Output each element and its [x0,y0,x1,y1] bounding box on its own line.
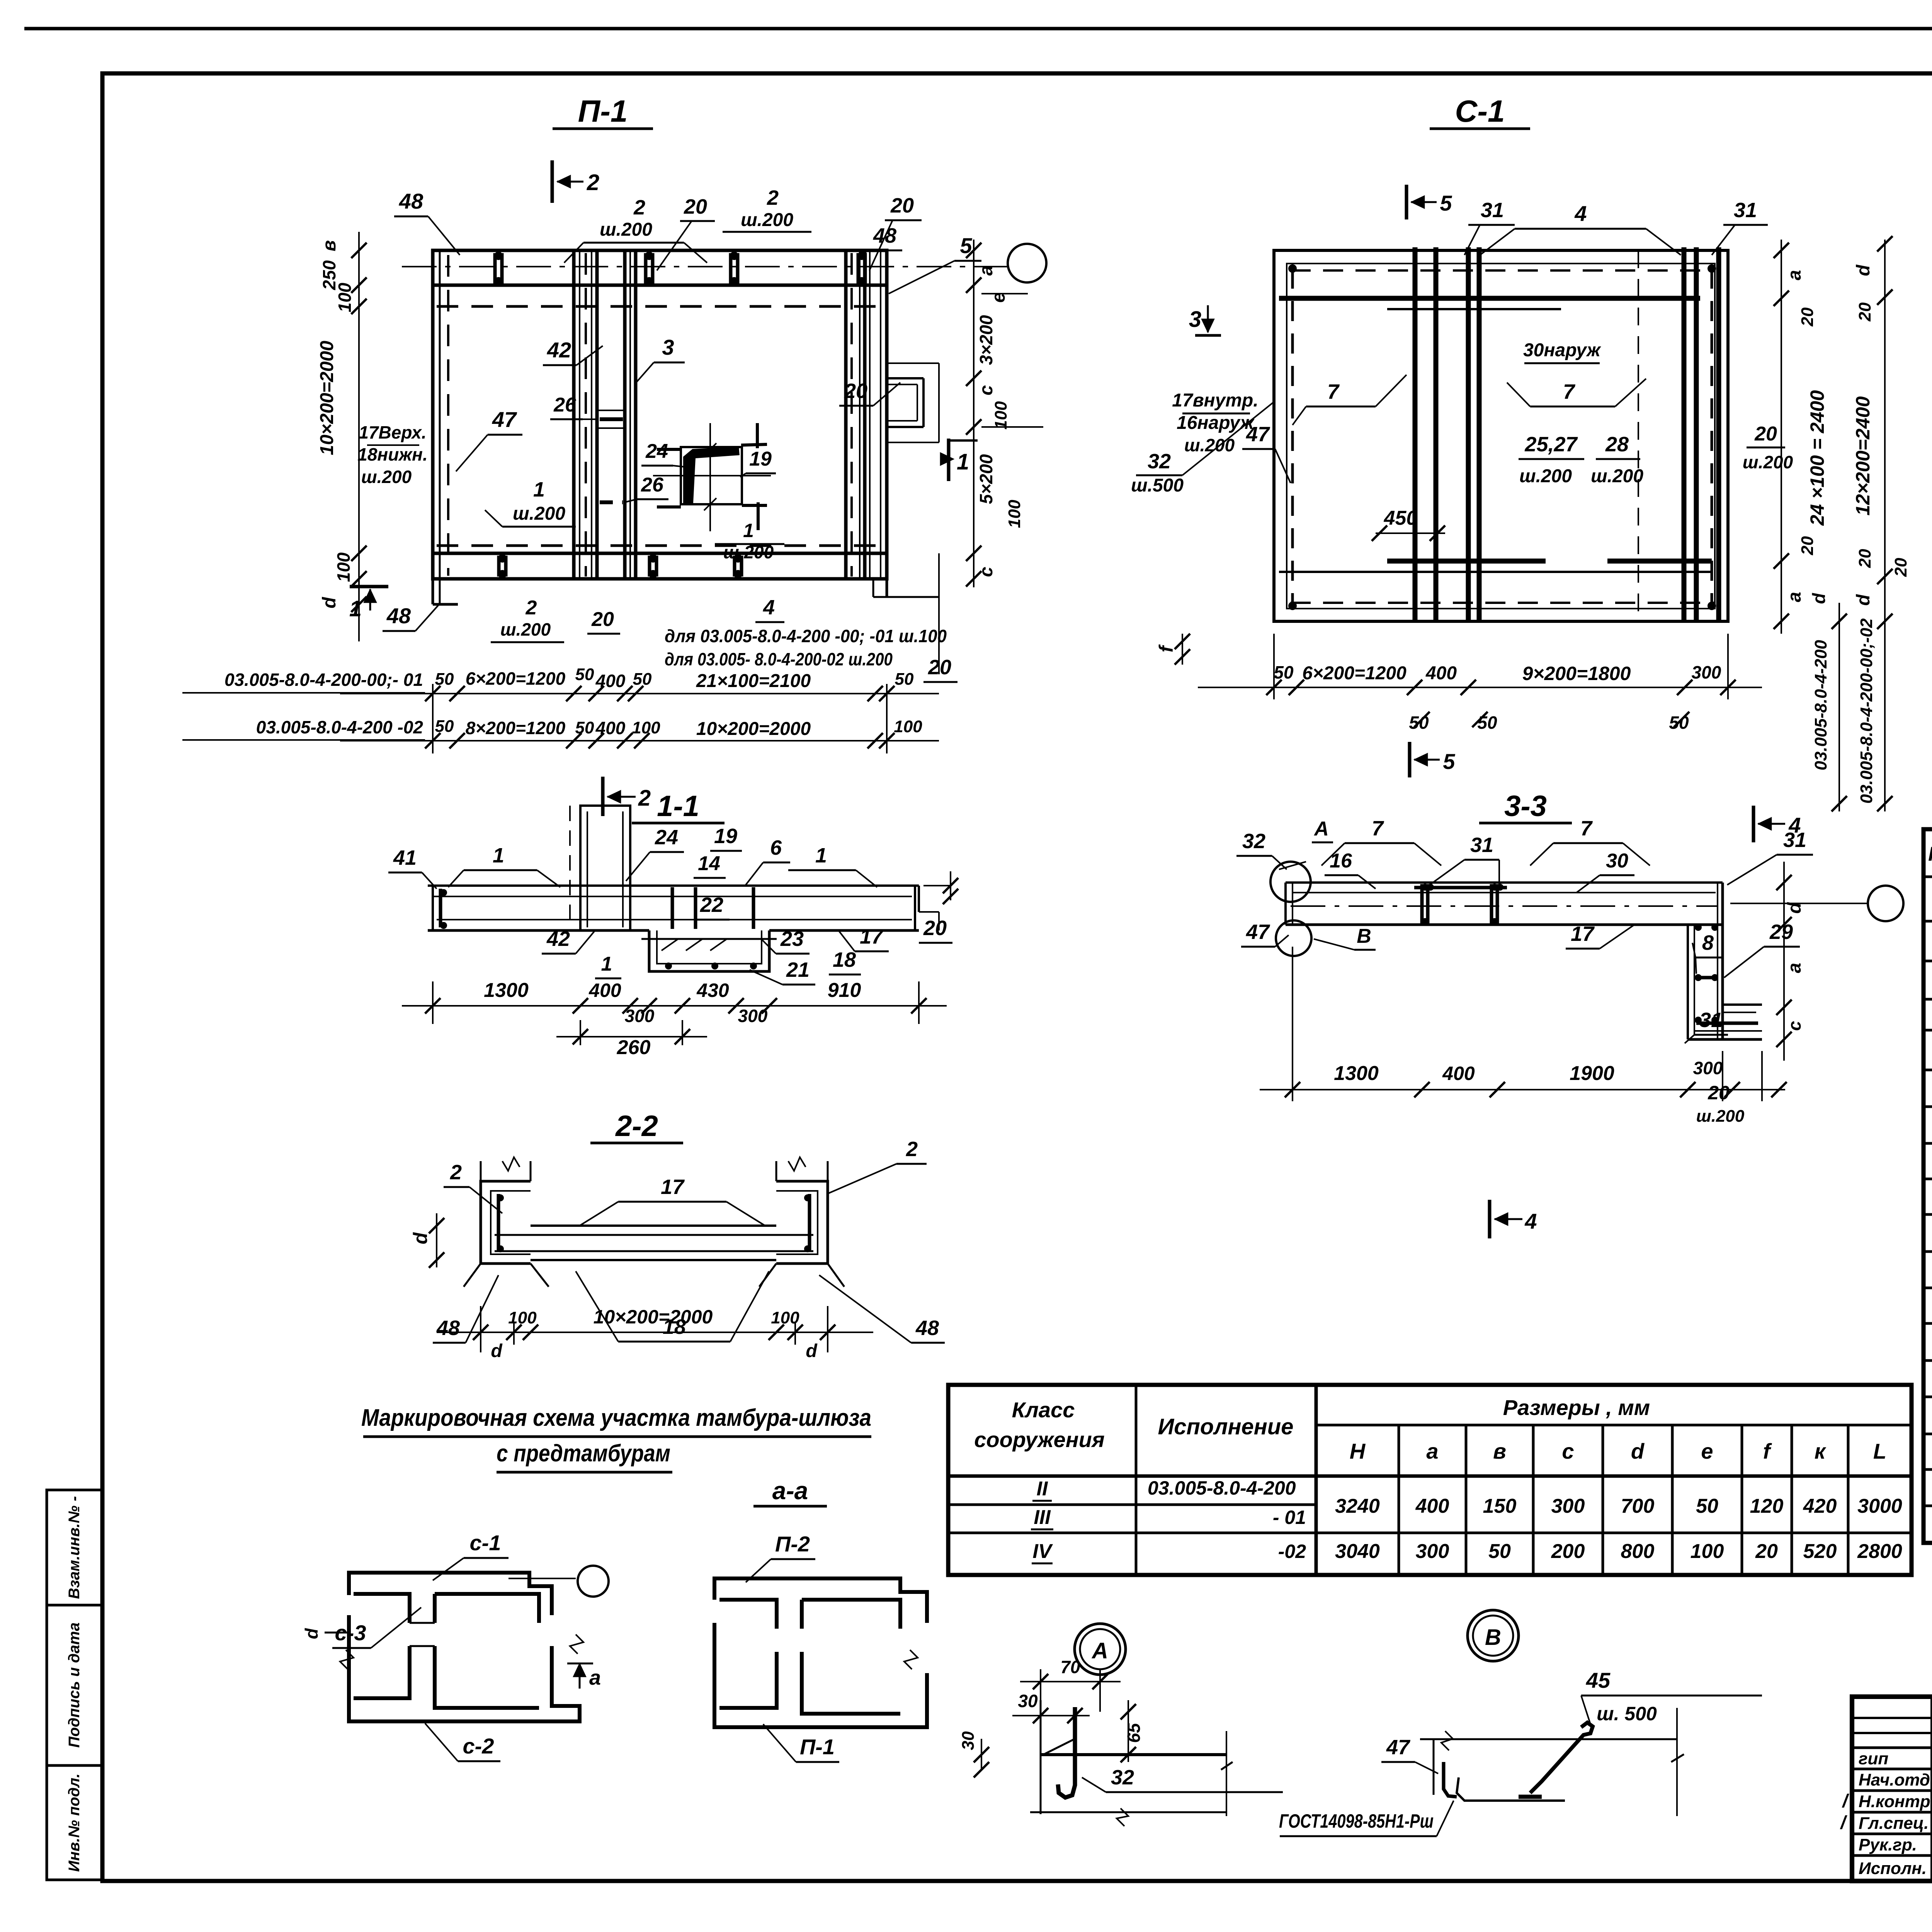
svg-text:150: 150 [1483,1495,1517,1517]
svg-text:03.005-8.0-4-200 -02: 03.005-8.0-4-200 -02 [256,717,423,737]
svg-text:48: 48 [399,189,423,213]
svg-text:Размеры , мм: Размеры , мм [1503,1395,1650,1420]
svg-text:700: 700 [1621,1495,1655,1517]
svg-text:12×200=2400: 12×200=2400 [1852,396,1874,515]
svg-text:с: с [1784,1021,1804,1031]
svg-text:20: 20 [1798,536,1817,555]
svg-text:2800: 2800 [1857,1540,1902,1563]
svg-text:20: 20 [928,656,951,679]
svg-text:16: 16 [1330,850,1352,872]
svg-text:03.005-8.0-4-200-00;- 01: 03.005-8.0-4-200-00;- 01 [224,670,423,690]
svg-text:800: 800 [1621,1540,1655,1563]
svg-text:гип: гип [1859,1749,1888,1768]
svg-text:3×200: 3×200 [976,315,996,365]
svg-text:а: а [1784,270,1805,281]
svg-text:1-1: 1-1 [657,790,699,823]
svg-text:П-2: П-2 [775,1532,810,1556]
svg-text:300: 300 [1551,1495,1585,1517]
svg-text:20: 20 [1755,1540,1778,1563]
svg-text:20: 20 [923,917,947,940]
svg-text:200: 200 [1551,1540,1585,1563]
svg-text:31: 31 [1481,199,1504,222]
svg-text:ш.500: ш.500 [1131,475,1184,496]
svg-text:20: 20 [1708,1082,1730,1104]
svg-text:50: 50 [435,717,454,736]
svg-text:25,27: 25,27 [1524,433,1578,456]
svg-text:2: 2 [767,186,779,209]
svg-text:ш.200: ш.200 [723,542,774,562]
svg-text:20: 20 [1891,558,1910,577]
svg-text:30наруж: 30наруж [1523,340,1601,361]
svg-text:21: 21 [786,958,810,981]
svg-text:ш.200: ш.200 [600,219,652,240]
svg-text:1300: 1300 [484,979,529,1002]
svg-text:-02: -02 [1278,1541,1306,1562]
svg-text:17внутр.: 17внутр. [1172,390,1258,411]
svg-text:32: 32 [1242,830,1265,853]
svg-text:260: 260 [617,1036,651,1059]
svg-text:ш.200: ш.200 [741,210,793,230]
svg-text:ш.200: ш.200 [1184,435,1235,455]
svg-text:В: В [1485,1625,1501,1650]
svg-text:7: 7 [1563,380,1576,403]
svg-text:1: 1 [601,953,612,975]
svg-text:300: 300 [1416,1540,1449,1563]
svg-text:1: 1 [493,844,504,867]
svg-text:1: 1 [533,478,545,501]
svg-text:47: 47 [1386,1736,1411,1759]
svg-text:3: 3 [662,335,674,359]
svg-text:4: 4 [1524,1209,1537,1233]
svg-text:7: 7 [1327,380,1340,403]
svg-text:а: а [1784,963,1805,973]
svg-text:Исполн.: Исполн. [1859,1859,1927,1878]
svg-text:ш.200: ш.200 [1696,1107,1745,1126]
svg-text:47: 47 [492,407,517,432]
svg-text:17: 17 [860,925,884,948]
svg-text:для 03.005-8.0-4-200 -00; -01: для 03.005-8.0-4-200 -00; -01 ш.100 [665,626,947,646]
svg-text:26: 26 [641,474,664,496]
svg-text:48: 48 [915,1316,939,1340]
svg-text:5: 5 [1440,191,1452,215]
svg-text:9×200=1800: 9×200=1800 [1522,663,1631,684]
svg-text:Поз: Поз [1928,843,1932,866]
svg-text:70: 70 [1060,1657,1080,1677]
svg-text:Н: Н [1350,1439,1366,1463]
svg-text:Исполнение: Исполнение [1158,1414,1294,1439]
svg-text:17: 17 [661,1175,685,1199]
svg-text:2: 2 [906,1138,918,1161]
svg-text:4: 4 [1788,813,1801,837]
svg-text:29: 29 [1769,920,1793,944]
svg-text:3040: 3040 [1335,1540,1380,1563]
svg-text:47: 47 [1246,423,1270,446]
svg-text:03.005-8.0-4-200-00;-02: 03.005-8.0-4-200-00;-02 [1857,618,1876,804]
svg-text:7: 7 [1372,817,1384,840]
svg-text:24: 24 [655,826,678,849]
svg-text:22: 22 [700,893,723,917]
svg-text:4: 4 [763,596,775,619]
svg-text:Класс: Класс [1012,1398,1075,1422]
svg-text:II: II [1037,1478,1048,1500]
svg-text:2: 2 [450,1161,462,1184]
svg-text:а: а [976,265,997,276]
svg-text:для 03.005- 8.0-4-200-02 ш.20: для 03.005- 8.0-4-200-02 ш.200 [665,649,893,669]
svg-text:в: в [319,240,340,252]
svg-text:с: с [976,385,997,396]
svg-text:21×100=2100: 21×100=2100 [696,671,811,691]
svg-text:в: в [1493,1439,1506,1463]
svg-text:32: 32 [1111,1766,1134,1789]
svg-text:d: d [1853,594,1874,606]
svg-text:Маркировочная схема участка т: Маркировочная схема участка тамбура-шлюз… [361,1405,871,1431]
svg-text:18нижн.: 18нижн. [357,444,427,464]
svg-text:8: 8 [1702,931,1714,954]
svg-text:/: / [1842,1791,1849,1811]
svg-text:с: с [1562,1439,1574,1463]
svg-text:8×200=1200: 8×200=1200 [466,718,566,738]
svg-text:10×200=2000: 10×200=2000 [594,1306,713,1328]
svg-text:100: 100 [894,717,922,736]
svg-text:100: 100 [333,552,354,582]
svg-text:300: 300 [1693,1058,1723,1078]
svg-text:П-1: П-1 [800,1735,835,1759]
svg-text:П-1: П-1 [578,94,628,128]
svg-text:400: 400 [1415,1495,1449,1517]
svg-text:3000: 3000 [1857,1495,1902,1517]
svg-text:24 ×100 = 2400: 24 ×100 = 2400 [1806,390,1828,526]
svg-text:ш.200: ш.200 [1743,452,1793,472]
svg-text:100: 100 [508,1308,537,1327]
svg-text:3-3: 3-3 [1504,790,1547,823]
svg-text:31: 31 [1699,1009,1723,1032]
svg-text:/: / [1840,1813,1847,1833]
svg-text:Инв.№ подл.: Инв.№ подл. [66,1774,83,1872]
svg-text:с: с [976,567,997,577]
svg-text:к: к [1815,1439,1827,1463]
svg-text:2: 2 [587,170,599,195]
svg-text:100: 100 [1690,1540,1724,1563]
svg-text:Гл.спец.: Гл.спец. [1859,1814,1929,1833]
svg-text:5: 5 [1443,749,1455,774]
svg-text:20: 20 [591,608,614,631]
svg-text:6×200=1200: 6×200=1200 [466,668,566,689]
svg-text:100: 100 [992,401,1010,430]
svg-text:d: d [806,1341,818,1361]
svg-text:ш.200: ш.200 [361,467,412,487]
svg-text:50: 50 [435,670,454,689]
svg-text:50: 50 [1696,1495,1718,1517]
svg-text:ГОСТ14098-85Н1-Рш: ГОСТ14098-85Н1-Рш [1279,1810,1434,1832]
svg-text:d: d [491,1341,503,1361]
svg-text:а: а [589,1666,601,1689]
svg-text:а-а: а-а [772,1477,808,1505]
svg-text:50: 50 [575,718,594,737]
svg-text:31: 31 [1734,199,1757,222]
svg-text:450: 450 [1384,507,1418,529]
svg-text:400: 400 [595,671,626,691]
svg-text:910: 910 [828,979,861,1002]
svg-text:2: 2 [638,786,651,811]
svg-text:с предтамбурам: с предтамбурам [497,1440,670,1467]
svg-text:d: d [319,597,340,609]
svg-text:ш. 500: ш. 500 [1597,1703,1657,1725]
svg-text:400: 400 [595,718,626,738]
svg-text:14: 14 [698,852,720,875]
svg-text:47: 47 [1246,920,1270,944]
svg-text:300: 300 [1692,662,1721,682]
svg-text:с-1: с-1 [470,1531,501,1555]
svg-text:f: f [1155,644,1177,652]
svg-text:17: 17 [1571,922,1595,946]
svg-text:Рук.гр.: Рук.гр. [1859,1835,1917,1854]
svg-text:С-1: С-1 [1455,94,1505,128]
svg-text:а: а [1426,1439,1438,1463]
svg-text:20: 20 [1855,549,1874,568]
svg-text:31: 31 [1470,833,1493,857]
svg-text:120: 120 [1750,1495,1784,1517]
svg-text:f: f [1763,1439,1772,1463]
svg-text:Подпись и дата: Подпись и дата [66,1622,83,1748]
svg-text:А: А [1091,1638,1108,1663]
svg-text:20: 20 [844,379,867,403]
svg-text:45: 45 [1586,1668,1611,1692]
svg-text:d: d [1631,1439,1645,1463]
svg-text:1: 1 [815,844,827,867]
svg-text:1900: 1900 [1570,1062,1614,1085]
svg-text:48: 48 [386,604,411,628]
svg-text:30: 30 [1606,850,1628,872]
svg-text:30: 30 [1018,1691,1038,1711]
svg-text:23: 23 [780,927,804,951]
svg-text:100: 100 [335,282,355,312]
svg-text:50: 50 [1477,713,1497,733]
svg-text:с-2: с-2 [463,1734,494,1758]
svg-text:10×200=2000: 10×200=2000 [696,719,811,739]
svg-text:48: 48 [436,1316,460,1340]
svg-text:3240: 3240 [1335,1495,1380,1517]
svg-text:28: 28 [1605,433,1629,456]
svg-text:03.005-8.0-4-200: 03.005-8.0-4-200 [1811,640,1830,770]
svg-text:16наруж: 16наруж [1177,413,1255,433]
svg-text:- 01: - 01 [1273,1507,1306,1528]
svg-text:2-2: 2-2 [615,1110,658,1143]
svg-text:42: 42 [547,338,571,362]
svg-text:Н.контр.: Н.контр. [1859,1792,1932,1811]
svg-text:1: 1 [957,449,969,474]
svg-text:20: 20 [1798,307,1817,327]
svg-text:d: d [301,1628,321,1639]
svg-text:d: d [1809,593,1829,604]
svg-text:6: 6 [770,836,782,859]
svg-text:420: 420 [1803,1495,1837,1517]
svg-text:ш.200: ш.200 [513,503,565,524]
svg-text:3: 3 [1189,307,1201,332]
svg-text:4: 4 [1574,201,1587,226]
svg-text:5×200: 5×200 [976,454,996,504]
svg-text:17Верх.: 17Верх. [359,422,426,442]
svg-text:6×200=1200: 6×200=1200 [1302,663,1406,684]
svg-text:ш.200: ш.200 [1591,466,1643,486]
svg-text:520: 520 [1803,1540,1837,1563]
svg-text:а: а [1784,592,1805,602]
svg-text:1300: 1300 [1334,1062,1379,1085]
svg-text:d: d [410,1232,431,1244]
svg-text:65: 65 [1124,1723,1144,1743]
svg-text:400: 400 [1442,1063,1475,1084]
svg-text:III: III [1034,1506,1051,1529]
svg-text:е: е [1701,1439,1713,1463]
svg-text:30: 30 [959,1731,978,1750]
svg-text:20: 20 [1754,423,1777,445]
svg-text:19: 19 [749,448,772,470]
svg-text:В: В [1357,925,1371,947]
svg-text:А: А [1313,818,1329,840]
svg-text:1: 1 [743,520,754,541]
svg-text:ш.200: ш.200 [1519,466,1572,486]
svg-text:100: 100 [632,718,660,737]
svg-text:10×200=2000: 10×200=2000 [317,341,337,456]
svg-text:32: 32 [1148,450,1171,473]
svg-text:26: 26 [553,394,577,416]
svg-text:50: 50 [895,670,914,689]
svg-text:50: 50 [575,665,594,684]
svg-text:18: 18 [833,948,856,971]
svg-text:50: 50 [633,670,652,689]
svg-text:50: 50 [1488,1540,1511,1563]
svg-text:48: 48 [873,224,896,247]
svg-text:400: 400 [1425,663,1457,684]
svg-text:400: 400 [588,980,621,1001]
svg-text:7: 7 [1580,817,1593,840]
svg-text:IV: IV [1032,1540,1053,1563]
svg-text:сооружения: сооружения [974,1427,1105,1452]
svg-text:20: 20 [1855,302,1874,321]
svg-text:300: 300 [738,1006,768,1026]
svg-text:Нач.отд: Нач.отд [1859,1770,1930,1789]
svg-text:20: 20 [684,195,707,218]
svg-text:300: 300 [625,1006,655,1026]
svg-text:50: 50 [1274,662,1294,682]
svg-text:24: 24 [645,440,668,463]
svg-text:2: 2 [633,196,645,219]
svg-text:19: 19 [714,825,737,848]
svg-text:2: 2 [526,597,537,619]
svg-text:03.005-8.0-4-200: 03.005-8.0-4-200 [1148,1477,1296,1499]
svg-text:100: 100 [1005,500,1024,528]
svg-text:41: 41 [393,846,417,869]
svg-text:ш.200: ш.200 [500,619,551,639]
svg-text:Взам.инв.№ -: Взам.инв.№ - [66,1496,83,1599]
svg-text:20: 20 [890,194,914,217]
svg-text:430: 430 [696,980,729,1001]
svg-text:L: L [1873,1439,1886,1463]
svg-text:42: 42 [546,927,570,951]
svg-text:d: d [1853,264,1874,276]
